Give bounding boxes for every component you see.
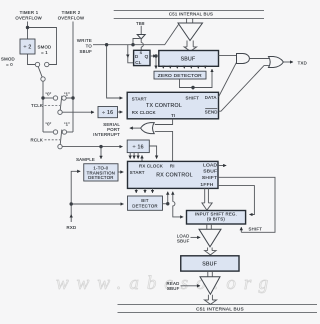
svg-text:SBUF: SBUF bbox=[80, 49, 93, 54]
svg-text:RXD: RXD bbox=[66, 225, 76, 230]
svg-text:TIMER 2: TIMER 2 bbox=[62, 10, 81, 15]
svg-text:SBUF: SBUF bbox=[167, 286, 180, 291]
svg-text:SMOD: SMOD bbox=[38, 45, 52, 50]
svg-text:S: S bbox=[140, 51, 143, 55]
svg-text:SMOD: SMOD bbox=[1, 57, 15, 62]
svg-text:DATA: DATA bbox=[205, 95, 217, 100]
svg-text:1FFH: 1FFH bbox=[200, 182, 213, 188]
svg-text:BIT: BIT bbox=[141, 198, 149, 203]
svg-text:OVERFLOW: OVERFLOW bbox=[58, 16, 85, 21]
svg-text:TIMER 1: TIMER 1 bbox=[20, 10, 39, 15]
svg-text:SHIFT: SHIFT bbox=[202, 175, 217, 181]
svg-text:WRITE: WRITE bbox=[77, 38, 92, 43]
svg-text:(9 BITS): (9 BITS) bbox=[207, 217, 225, 222]
svg-text:LOAD: LOAD bbox=[203, 163, 218, 169]
svg-text:“0”: “0” bbox=[45, 91, 51, 96]
svg-text:SHIFT: SHIFT bbox=[249, 227, 263, 232]
svg-text:RCLK: RCLK bbox=[31, 138, 43, 143]
svg-text:= 1: = 1 bbox=[41, 50, 48, 55]
svg-text:= 0: = 0 bbox=[6, 62, 13, 67]
svg-text:÷ 16: ÷ 16 bbox=[102, 110, 113, 116]
svg-text:C51 INTERNAL BUS: C51 INTERNAL BUS bbox=[169, 12, 213, 17]
svg-text:SAMPLE: SAMPLE bbox=[76, 157, 95, 162]
svg-text:÷ 16: ÷ 16 bbox=[133, 145, 144, 151]
svg-text:Q: Q bbox=[145, 54, 149, 59]
svg-text:C51 INTERNAL BUS: C51 INTERNAL BUS bbox=[196, 307, 244, 312]
svg-text:÷ 2: ÷ 2 bbox=[24, 45, 32, 51]
svg-text:CL: CL bbox=[135, 60, 142, 65]
svg-text:“1”: “1” bbox=[64, 122, 70, 127]
svg-text:TO: TO bbox=[86, 43, 93, 48]
svg-text:ZERO DETECTOR: ZERO DETECTOR bbox=[158, 73, 202, 79]
svg-text:OVERFLOW: OVERFLOW bbox=[15, 16, 42, 21]
svg-text:RX CONTROL: RX CONTROL bbox=[156, 172, 193, 178]
svg-text:TXD: TXD bbox=[298, 61, 307, 66]
svg-text:RX CLOCK: RX CLOCK bbox=[132, 110, 156, 115]
svg-text:INTERRUPT: INTERRUPT bbox=[93, 132, 120, 137]
svg-text:SHIFT: SHIFT bbox=[185, 96, 199, 101]
svg-text:SBUF: SBUF bbox=[177, 238, 190, 243]
svg-text:SBUF: SBUF bbox=[181, 57, 196, 63]
svg-text:SBUF: SBUF bbox=[202, 262, 217, 268]
svg-text:“0”: “0” bbox=[45, 122, 51, 127]
svg-text:DETECTOR: DETECTOR bbox=[132, 204, 158, 209]
svg-text:TCLK: TCLK bbox=[31, 103, 43, 108]
svg-text:RI: RI bbox=[170, 164, 175, 169]
svg-text:START: START bbox=[132, 96, 147, 101]
svg-text:TB8: TB8 bbox=[136, 21, 145, 26]
svg-text:SEND: SEND bbox=[205, 110, 218, 115]
svg-text:TX CONTROL: TX CONTROL bbox=[146, 103, 182, 109]
svg-text:DETECTOR: DETECTOR bbox=[88, 175, 114, 180]
svg-text:START: START bbox=[130, 170, 145, 175]
svg-text:D: D bbox=[135, 54, 139, 59]
svg-text:RX CLOCK: RX CLOCK bbox=[139, 164, 163, 169]
svg-text:SBUF: SBUF bbox=[203, 169, 217, 175]
svg-text:TI: TI bbox=[171, 113, 175, 118]
